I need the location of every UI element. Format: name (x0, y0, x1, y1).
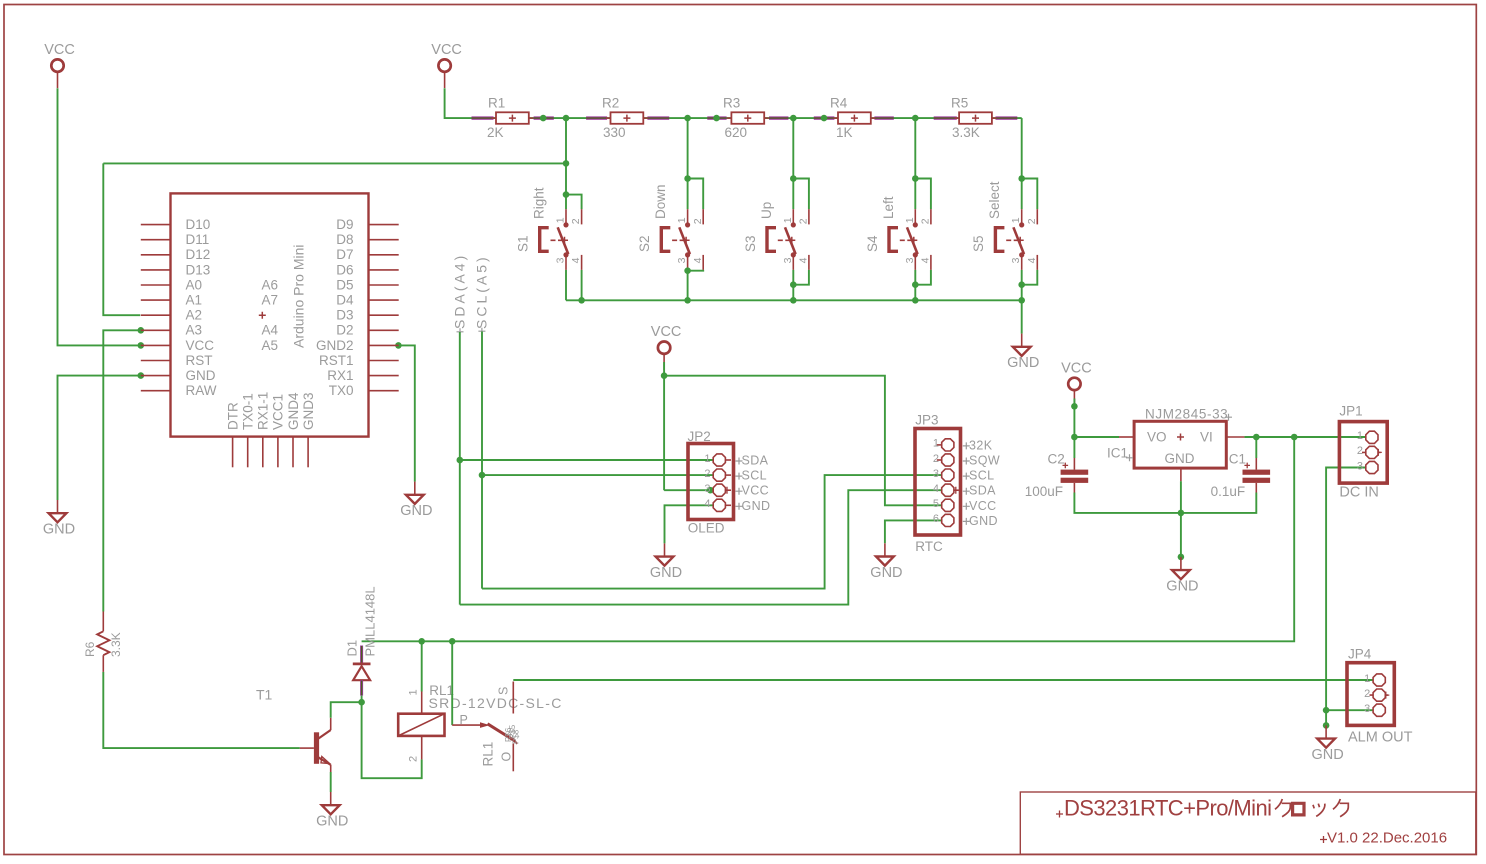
svg-text:1K: 1K (836, 125, 853, 140)
junction A2-S1 (563, 160, 570, 167)
wire coil pin1 (421, 641, 423, 691)
junction relay pole (449, 638, 456, 645)
svg-text:A4: A4 (262, 323, 279, 338)
svg-text:P: P (460, 713, 469, 727)
power VCC (44, 42, 75, 88)
wire IC1 GND (1180, 481, 1182, 557)
svg-text:Right: Right (532, 187, 547, 219)
svg-text:2: 2 (408, 756, 420, 762)
wire S4 bottom bridge (915, 270, 931, 300)
svg-text:GND: GND (186, 368, 216, 383)
resistor R1 (487, 96, 533, 140)
resistor R3 (723, 96, 769, 140)
svg-text:SRD-12VDC-SL-C: SRD-12VDC-SL-C (429, 695, 563, 711)
junction VI branch (1291, 434, 1298, 441)
wire node to S1 (103, 162, 566, 164)
svg-text:DC IN: DC IN (1339, 484, 1378, 500)
svg-text:VCC: VCC (742, 484, 770, 498)
svg-text:3: 3 (782, 257, 794, 263)
svg-text:GND: GND (742, 499, 771, 513)
connector JP3 (915, 413, 961, 554)
svg-text:SDA(A4): SDA(A4) (452, 253, 468, 329)
svg-text:620: 620 (725, 125, 748, 140)
junction A3 (138, 327, 145, 334)
svg-text:O: O (500, 751, 514, 761)
svg-text:A6: A6 (262, 277, 279, 292)
svg-text:1: 1 (676, 217, 688, 223)
svg-text:3.3K: 3.3K (952, 125, 980, 140)
switch S4 Left (865, 175, 932, 270)
switch S5 Select (971, 175, 1038, 270)
wire R6 to Q1 base (103, 672, 299, 748)
svg-text:330: 330 (603, 125, 626, 140)
connector JP1 (1339, 403, 1387, 500)
wire SDA bottom (460, 490, 942, 604)
wire bus to S5 (1021, 118, 1023, 178)
wire GND2 (398, 345, 414, 481)
connector JP2 (688, 429, 734, 536)
svg-text:S2: S2 (637, 235, 652, 252)
svg-text:DS3231RTC+Pro/Mini: DS3231RTC+Pro/Mini (1064, 796, 1272, 821)
ground emitter (316, 792, 348, 830)
junction S3 bridge (790, 281, 797, 288)
svg-text:D1: D1 (345, 640, 360, 657)
wire S1 pins to bus (566, 270, 582, 300)
svg-text:VO: VO (1147, 429, 1167, 444)
switch S1 Right (516, 187, 583, 270)
svg-text:VCC1: VCC1 (271, 394, 286, 430)
wire ALM out (513, 679, 1373, 681)
junction reg b (1071, 434, 1078, 441)
wire SDA to JP2 (460, 459, 714, 461)
wire bus R4-R5 (871, 117, 959, 119)
svg-text:D10: D10 (186, 217, 211, 232)
svg-text:A0: A0 (186, 277, 203, 292)
svg-text:DTR: DTR (225, 402, 240, 430)
svg-text:R2: R2 (602, 96, 619, 111)
ground ALM (1311, 725, 1343, 763)
svg-text:1: 1 (933, 438, 939, 450)
svg-text:2: 2 (1357, 445, 1363, 457)
svg-text:6: 6 (933, 513, 939, 525)
junction S5 bus (1018, 297, 1025, 304)
svg-text:RST1: RST1 (319, 353, 354, 368)
svg-text:OLED: OLED (688, 521, 725, 536)
svg-text:1: 1 (1357, 430, 1363, 442)
junction GND (138, 372, 145, 379)
wire VCC to JP2 pin3 (664, 489, 714, 491)
wire C2 top (1073, 437, 1075, 458)
svg-text:1: 1 (555, 217, 567, 223)
transistor T1 (256, 687, 331, 773)
svg-text:SQW: SQW (969, 454, 1000, 468)
svg-text:Select: Select (987, 181, 1002, 219)
svg-text:P$8: P$8 (512, 729, 521, 744)
svg-text:1: 1 (782, 217, 794, 223)
svg-text:3: 3 (555, 257, 567, 263)
svg-text:4: 4 (1026, 257, 1038, 263)
relay coil RL1 (398, 683, 562, 762)
junction reg a (1071, 403, 1078, 410)
svg-text:Up: Up (759, 202, 774, 219)
junction reg GND b (1178, 554, 1185, 561)
svg-text:RST: RST (186, 353, 213, 368)
svg-text:3: 3 (933, 468, 939, 480)
junction S2 bus (684, 297, 691, 304)
junction C1 (1253, 434, 1260, 441)
svg-text:3: 3 (1357, 460, 1363, 472)
svg-text:JP4: JP4 (1348, 646, 1372, 661)
relay contact RL1 (452, 682, 520, 772)
wire relay pole (451, 641, 453, 725)
svg-text:JP2: JP2 (688, 429, 711, 444)
svg-text:5: 5 (933, 498, 939, 510)
title version (1320, 830, 1447, 847)
junction bus c (821, 115, 828, 122)
wire C1 top (1255, 437, 1257, 458)
svg-text:PMLL4148L: PMLL4148L (363, 586, 378, 656)
title block (1020, 792, 1476, 854)
title katakana (1275, 799, 1348, 817)
wire bus to S3 (792, 118, 794, 178)
wire SCL vertical (481, 332, 483, 589)
wire collector (331, 702, 362, 718)
svg-text:RX1-1: RX1-1 (256, 392, 271, 430)
svg-text:S4: S4 (865, 235, 880, 252)
svg-text:D4: D4 (336, 293, 354, 308)
wire bus to S2 (687, 118, 689, 178)
svg-text:3: 3 (904, 257, 916, 263)
wire GND pin (58, 376, 141, 500)
wire to GND (1021, 300, 1023, 333)
svg-text:R4: R4 (830, 96, 848, 111)
svg-text:4: 4 (920, 257, 932, 263)
wire bus R5-S5 (992, 117, 1022, 119)
junction reg GND a (1178, 510, 1185, 517)
wire D1 to coil pin2 (362, 702, 422, 778)
wire C1 to GND (1181, 493, 1256, 513)
svg-text:A7: A7 (262, 293, 279, 308)
svg-text:D3: D3 (336, 308, 353, 323)
svg-text:GND: GND (1165, 451, 1195, 466)
wire switch common bus (566, 299, 1022, 301)
svg-text:Down: Down (653, 184, 668, 219)
svg-text:A1: A1 (186, 293, 203, 308)
net dashes (472, 116, 1018, 119)
svg-text:D7: D7 (336, 247, 353, 262)
label SDA(A4) (452, 253, 468, 336)
svg-text:D6: D6 (336, 262, 353, 277)
wire VI to JP1 (1244, 436, 1366, 438)
junction bus S1 (563, 115, 570, 122)
JP3 pin labels (963, 438, 1000, 528)
svg-text:D2: D2 (336, 323, 353, 338)
svg-text:0.1uF: 0.1uF (1211, 484, 1246, 499)
svg-text:RTC: RTC (915, 539, 943, 554)
ground regulator (1166, 557, 1198, 595)
wire VCC down (663, 362, 665, 490)
junction JP4 pin3 (1323, 707, 1330, 714)
junction S1 pin4 (578, 297, 585, 304)
junction S4 bridge (912, 281, 919, 288)
wire S3 bottom bridge (793, 270, 809, 300)
svg-text:VI: VI (1200, 429, 1213, 444)
svg-text:1: 1 (1364, 673, 1370, 685)
svg-text:T1: T1 (256, 687, 273, 703)
ground switches (1007, 334, 1039, 372)
svg-text:C2: C2 (1048, 452, 1065, 467)
svg-text:VCC: VCC (186, 338, 215, 353)
svg-text:A2: A2 (186, 308, 203, 323)
junction S2 bridge (684, 267, 691, 274)
junction bus S2 (684, 115, 691, 122)
title text (1056, 796, 1272, 821)
svg-text:VCC: VCC (969, 499, 997, 513)
resistor R2 (602, 96, 648, 140)
wire bus R3-R4 (764, 117, 838, 119)
wire A3 to R6 (103, 330, 140, 611)
svg-text:3.3K: 3.3K (109, 632, 123, 657)
capacitor C2 (1025, 452, 1089, 500)
svg-text:GND3: GND3 (301, 392, 316, 430)
svg-text:4: 4 (798, 257, 810, 263)
resistor R6 (83, 612, 123, 672)
svg-text:NJM2845-33: NJM2845-33 (1145, 407, 1228, 422)
svg-text:3: 3 (704, 483, 710, 495)
svg-text:4: 4 (704, 498, 710, 510)
svg-text:R3: R3 (723, 96, 740, 111)
label SCL(A5) (474, 254, 490, 334)
wire VCC to VO (1074, 399, 1119, 438)
wire emitter (330, 772, 332, 792)
junction bus S3 (790, 115, 797, 122)
svg-text:A5: A5 (262, 338, 279, 353)
voltage regulator IC1 NJM2845-33 (1107, 407, 1244, 482)
svg-text:2: 2 (1026, 218, 1038, 224)
wire bus to S1 (565, 118, 567, 195)
wire A2 to node (103, 163, 140, 315)
svg-text:2: 2 (798, 218, 810, 224)
junction bus S4 (912, 115, 919, 122)
junction S5 bridge (1018, 281, 1025, 288)
svg-text:100uF: 100uF (1025, 484, 1063, 499)
wire bus R1-R2 (529, 117, 611, 119)
ground OLED (650, 543, 682, 581)
svg-text:A3: A3 (186, 323, 203, 338)
svg-text:D9: D9 (336, 217, 353, 232)
svg-text:2: 2 (933, 453, 939, 465)
svg-text:SCL: SCL (969, 469, 995, 483)
svg-text:2: 2 (1364, 688, 1370, 700)
wire VCC to RTC (664, 376, 942, 506)
svg-text:3: 3 (1364, 703, 1370, 715)
wire JP1 pin3 (1326, 468, 1366, 726)
svg-text:3: 3 (1010, 257, 1022, 263)
junction SCL (479, 472, 486, 479)
svg-text:2: 2 (920, 218, 932, 224)
svg-text:Arduino Pro Mini: Arduino Pro Mini (291, 245, 307, 349)
svg-text:4: 4 (933, 483, 939, 495)
svg-text:S5: S5 (971, 235, 986, 252)
svg-text:2: 2 (692, 218, 704, 224)
svg-text:D5: D5 (336, 277, 353, 292)
resistor R5 (951, 96, 996, 140)
capacitor C1 (1211, 452, 1271, 500)
svg-text:R6: R6 (83, 641, 97, 657)
svg-text:Left: Left (881, 196, 896, 219)
junction D1 anode (358, 699, 365, 706)
svg-text:RL1: RL1 (481, 742, 496, 767)
resistor R4 (830, 96, 875, 140)
wire SDA vertical (459, 332, 461, 605)
ground (400, 482, 432, 519)
wire S5 bottom bridge (1022, 270, 1038, 300)
wire S2 bottom bridge (688, 270, 704, 300)
svg-text:SDA: SDA (969, 484, 996, 498)
junction bus a (540, 115, 547, 122)
diode D1 PMLL4148L (345, 586, 378, 702)
junction SDA (457, 457, 464, 464)
svg-text:D12: D12 (186, 247, 211, 262)
svg-text:RAW: RAW (186, 383, 217, 398)
svg-text:32K: 32K (969, 438, 993, 452)
wire JP3 pin6 to GND (885, 520, 942, 543)
svg-text:4: 4 (570, 257, 582, 263)
junction S4 bus (912, 297, 919, 304)
svg-text:C1: C1 (1229, 452, 1246, 467)
junction VCC mid (661, 372, 668, 379)
svg-text:1: 1 (904, 217, 916, 223)
IC U1 Arduino Pro Mini (141, 193, 399, 467)
svg-text:SCL(A5): SCL(A5) (474, 254, 490, 329)
wire C2 to GND (1074, 493, 1181, 513)
svg-text:JP3: JP3 (915, 413, 938, 428)
junction bus b (713, 115, 720, 122)
switch S2 Down (637, 175, 704, 270)
power VCC rail (431, 42, 462, 88)
svg-text:ALM OUT: ALM OUT (1348, 730, 1413, 746)
svg-text:D8: D8 (336, 232, 353, 247)
wire SCL bottom (482, 475, 942, 588)
wire VCC to U1 (58, 88, 141, 345)
junction JP2 pin3 (707, 487, 714, 494)
junction JP4 GND (1323, 722, 1330, 729)
svg-text:2: 2 (704, 468, 710, 480)
svg-text:R5: R5 (951, 96, 968, 111)
svg-text:IC1: IC1 (1107, 446, 1128, 461)
svg-text:GND2: GND2 (316, 338, 354, 353)
svg-text:JP1: JP1 (1339, 403, 1362, 418)
switch S3 Up (743, 175, 810, 270)
wire bus to S4 (914, 118, 916, 178)
wire VI to relay rail (362, 437, 1295, 641)
svg-text:S1: S1 (516, 235, 531, 252)
svg-text:SDA: SDA (742, 454, 769, 468)
svg-text:2: 2 (570, 218, 582, 224)
svg-text:V1.0 22.Dec.2016: V1.0 22.Dec.2016 (1327, 830, 1447, 847)
junction VCC (138, 342, 145, 349)
svg-text:D13: D13 (186, 262, 211, 277)
power VCC reg (1061, 360, 1092, 406)
svg-text:S3: S3 (743, 235, 758, 252)
svg-text:RX1: RX1 (327, 368, 353, 383)
ground RTC (870, 543, 902, 581)
wire bus R2-R3 (643, 117, 731, 119)
power VCC mid (651, 324, 682, 370)
wire SCL to JP2 (482, 474, 714, 476)
svg-text:TX0-1: TX0-1 (241, 393, 256, 430)
svg-text:4: 4 (692, 257, 704, 263)
wire VCC to bus (445, 88, 496, 118)
wire JP2 pin4 to GND (665, 505, 714, 543)
svg-text:D11: D11 (186, 232, 210, 247)
svg-text:1: 1 (408, 689, 420, 695)
svg-text:1: 1 (704, 453, 710, 465)
junction coil pin1 (418, 638, 425, 645)
svg-text:S: S (497, 686, 511, 695)
svg-text:3: 3 (676, 257, 688, 263)
svg-text:1: 1 (1010, 217, 1022, 223)
svg-text:GND4: GND4 (286, 392, 301, 430)
wire JP4 pin3 (1326, 709, 1373, 711)
svg-text:TX0: TX0 (329, 383, 354, 398)
junction GND2 (395, 342, 402, 349)
svg-text:R1: R1 (488, 96, 505, 111)
ground (43, 500, 75, 538)
svg-text:GND: GND (969, 514, 998, 528)
JP2 pin labels (736, 454, 771, 513)
connector JP4 (1347, 646, 1413, 745)
junction S3 bus (790, 297, 797, 304)
svg-text:2K: 2K (487, 125, 504, 140)
svg-text:SCL: SCL (742, 469, 768, 483)
